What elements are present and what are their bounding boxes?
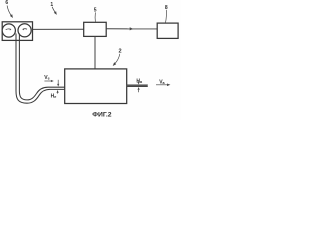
box 5 xyxy=(84,22,107,36)
roller right circle xyxy=(18,24,31,37)
svg-text:2: 2 xyxy=(119,49,122,55)
svg-text:6: 6 xyxy=(5,0,8,6)
wire: vertical connector box 5 to box 2 xyxy=(94,36,96,69)
wire: line from box 5 to box 8 with arrowhead xyxy=(106,28,157,30)
box 8 xyxy=(157,23,178,38)
He measurement arrows xyxy=(57,80,59,84)
roller left rotation arrow xyxy=(6,28,11,31)
Ha measurement arrows xyxy=(138,81,140,83)
box 2 xyxy=(65,69,127,104)
roller left circle xyxy=(2,24,15,37)
wire: main line 1 from rollers to box 5 xyxy=(33,28,84,30)
svg-text:Ve: Ve xyxy=(44,75,49,81)
roller right rotation arrow xyxy=(23,28,27,31)
roller unit 6 housing xyxy=(2,22,32,41)
svg-text:He: He xyxy=(51,94,57,100)
svg-text:ФИГ.2: ФИГ.2 xyxy=(92,112,112,119)
strand inner line from roller nip to box 2 xyxy=(19,34,64,100)
svg-text:Ha: Ha xyxy=(136,78,143,84)
strand outer line from roller nip to box 2 xyxy=(16,34,65,104)
strand exit band xyxy=(127,84,148,86)
